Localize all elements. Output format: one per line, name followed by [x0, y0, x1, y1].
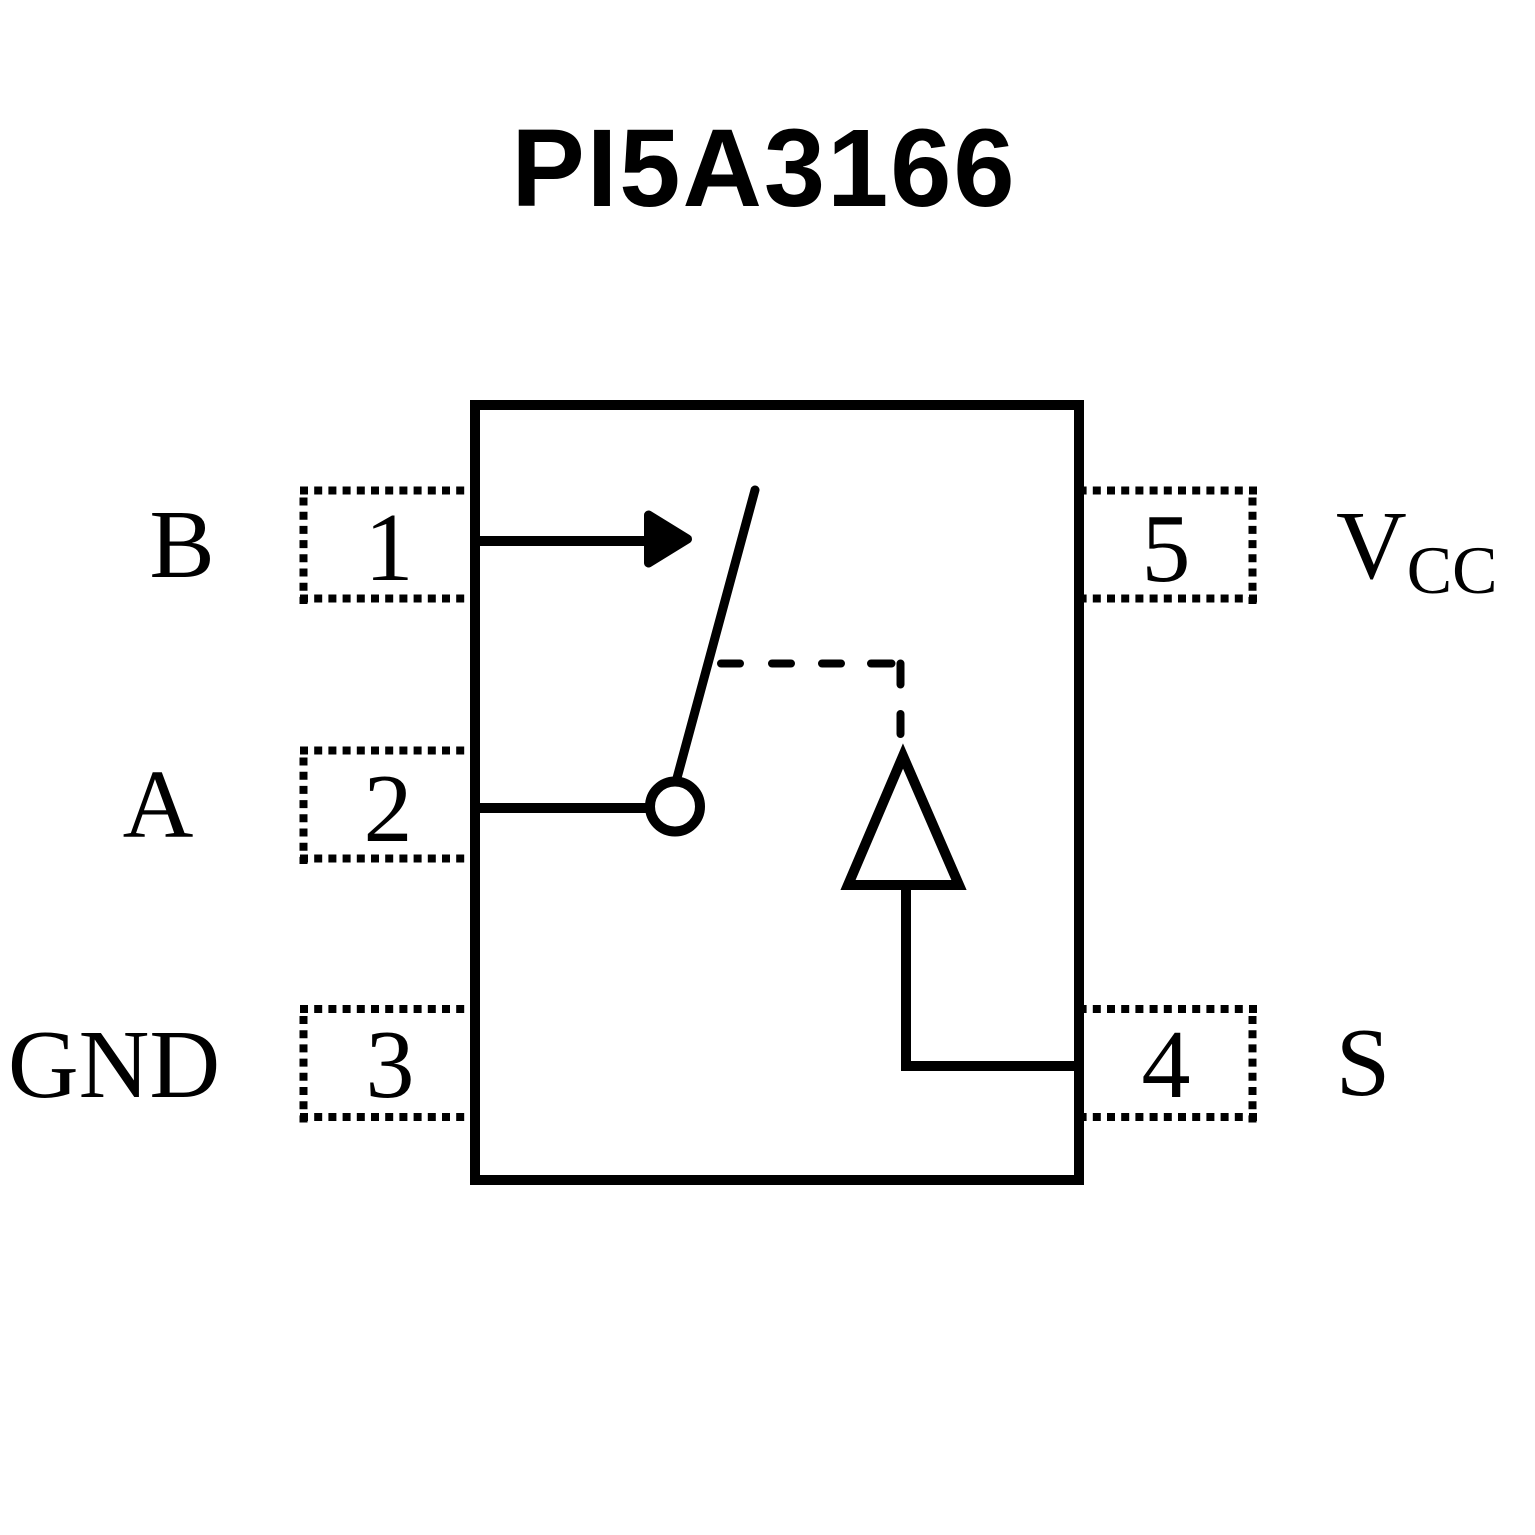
wire pin 1 input [475, 536, 650, 546]
pin 5 box [1084, 491, 1257, 605]
wire pin 4 to buffer [906, 880, 1084, 1066]
svg-text:GND: GND [8, 1011, 220, 1119]
wire pin 2 input [475, 803, 655, 813]
svg-text:4: 4 [1142, 1011, 1191, 1119]
pin 4 box [1084, 1009, 1257, 1123]
pin 1 box [300, 491, 470, 605]
pin 2 box [300, 751, 470, 865]
switch blade SW [677, 490, 755, 778]
IC body U1 [475, 405, 1079, 1180]
svg-text:B: B [149, 491, 214, 599]
svg-text:5: 5 [1142, 495, 1191, 603]
pin 3 box [300, 1009, 470, 1123]
svg-text:S: S [1336, 1009, 1391, 1117]
buffer amplifier triangle [848, 756, 959, 885]
svg-text:A: A [123, 751, 194, 859]
switch pole circle [650, 782, 700, 832]
svg-text:PI5A3166: PI5A3166 [511, 107, 1016, 230]
arrowhead on pin 1 wire [649, 515, 688, 563]
svg-text:1: 1 [365, 494, 414, 602]
dashed control link [721, 664, 901, 735]
svg-text:2: 2 [364, 755, 413, 863]
svg-text:3: 3 [366, 1011, 415, 1119]
